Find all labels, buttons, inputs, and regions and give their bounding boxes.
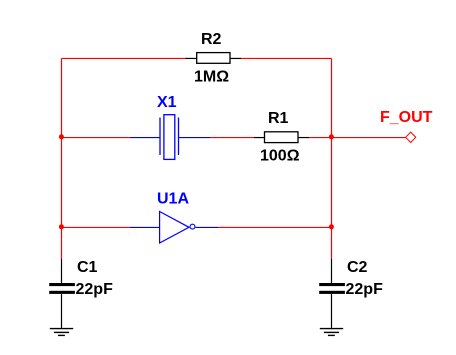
node junction dot at left rail / inverter row	[59, 224, 64, 229]
wire: crystal row red, X1 pin to R1 pin	[210, 137, 255, 139]
wire: crystal row red, R1 pin to right rail	[309, 137, 332, 139]
wire: top horizontal red left of R2	[62, 57, 187, 59]
wire: red from right rail junction to F_OUT terminal	[332, 137, 406, 139]
wire: inverter row red, left rail to U1A input pin	[62, 226, 131, 228]
node junction dot at right rail / crystal row	[329, 134, 334, 139]
svg-text:1MΩ: 1MΩ	[194, 68, 229, 85]
wire: left rail vertical red	[61, 58, 63, 259]
resistor R2	[186, 53, 242, 64]
node junction dot at right rail / inverter row	[329, 224, 334, 229]
capacitor C1	[49, 259, 75, 329]
ground (right)	[320, 329, 343, 336]
node junction dot at left rail / crystal row	[59, 134, 64, 139]
capacitor C2	[319, 259, 345, 329]
svg-text:22pF: 22pF	[346, 281, 384, 298]
svg-text:U1A: U1A	[157, 190, 189, 207]
wire: crystal row red, left rail to X1 pin	[62, 137, 131, 139]
svg-text:F_OUT: F_OUT	[380, 109, 433, 126]
wire: inverter row red, U1A output pin to right rail	[218, 226, 332, 228]
crystal X1	[130, 115, 210, 160]
svg-text:C1: C1	[77, 259, 98, 276]
resistor R1	[254, 132, 309, 143]
terminal diamond F_OUT	[406, 132, 416, 142]
wire: top horizontal red right of R2	[241, 57, 332, 59]
svg-text:C2: C2	[347, 259, 368, 276]
svg-text:R2: R2	[201, 31, 222, 48]
svg-text:22pF: 22pF	[76, 281, 114, 298]
svg-text:R1: R1	[268, 110, 289, 127]
svg-text:100Ω: 100Ω	[260, 147, 300, 164]
op-amp U1A inverter	[130, 212, 218, 244]
ground (left)	[50, 329, 73, 336]
svg-text:X1: X1	[157, 94, 177, 111]
wire: right rail vertical red	[331, 58, 333, 259]
